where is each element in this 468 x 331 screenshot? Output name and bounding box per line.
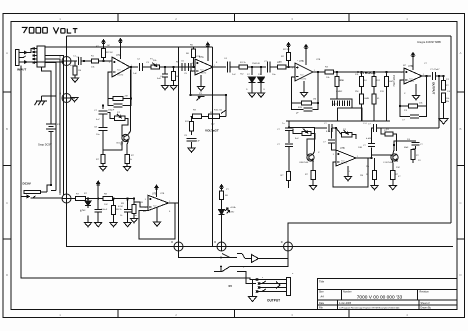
- wire supply node run: [86, 198, 104, 200]
- capacitor C17 fb: [410, 115, 419, 118]
- svg-text:ETTT: ETTT: [333, 104, 339, 106]
- wire U3 feedback loop: [292, 77, 302, 103]
- wire U3 fb up: [317, 72, 319, 103]
- wire STROCK run: [357, 71, 398, 73]
- transistor Q3 BC546: [386, 154, 399, 164]
- wire P4 to Q2: [307, 134, 315, 156]
- power V+ R2: [102, 40, 105, 45]
- svg-text:Drawn By: Drawn By: [421, 307, 432, 310]
- wire RR2 top: [374, 158, 376, 171]
- svg-text:C: C: [6, 201, 8, 205]
- op-amp U6B NJM4558: [333, 147, 358, 166]
- resistor RT1: [335, 77, 339, 87]
- wire bypass right run: [450, 36, 452, 223]
- svg-text:TL0: TL0: [153, 205, 156, 207]
- wire tone drop 1: [336, 72, 338, 77]
- wire CR2 wires: [372, 128, 374, 132]
- wire base bias: [103, 141, 122, 150]
- wire C8 down: [102, 131, 104, 154]
- wire C13 gnd: [127, 212, 129, 222]
- wire jack sleeve down: [21, 66, 256, 280]
- svg-text:MbF: MbF: [404, 147, 409, 149]
- title block row lines: [318, 290, 458, 305]
- svg-text:1M: 1M: [313, 99, 316, 101]
- svg-text:INPUT: INPUT: [17, 68, 26, 72]
- resistor RM1: [287, 172, 291, 181]
- op-amp U2A NJM4558: [192, 56, 215, 75]
- svg-text:TL0: TL0: [117, 69, 120, 71]
- resistor R11 gain: [189, 116, 193, 135]
- svg-text:TL0: TL0: [200, 69, 203, 71]
- power V+ U4: [411, 53, 414, 59]
- wire CM2 down: [288, 147, 290, 170]
- resistor RT4: [384, 77, 388, 121]
- resistor R2 bias up: [101, 49, 105, 61]
- capacitor CM1: [285, 128, 293, 131]
- svg-text:DC9V: DC9V: [23, 182, 32, 186]
- svg-text:3: 3: [333, 154, 334, 156]
- capacitor C12 100uF: [94, 209, 102, 212]
- wire P5 right: [352, 135, 356, 139]
- resistor RM2: [311, 171, 315, 180]
- wire buffer out: [259, 258, 289, 260]
- capacitor C7: [98, 111, 107, 114]
- ground R8: [124, 167, 131, 171]
- resistor RT2: [359, 77, 363, 87]
- ground diode D5: [84, 223, 91, 227]
- svg-text:U?B: U?B: [408, 65, 413, 68]
- resistor R8 emitter: [125, 155, 129, 167]
- svg-text:TL072: TL072: [117, 75, 124, 77]
- svg-text:2: 2: [145, 207, 146, 209]
- svg-text:3: 3: [192, 63, 193, 65]
- wire rail 0V: [67, 203, 454, 247]
- op-amp U4B NJM4558: [401, 65, 424, 84]
- svg-text:C:\Program Files\Design Explor: C:\Program Files\Design Explorer 99 SE\E…: [339, 307, 400, 310]
- wire output tap: [438, 76, 440, 128]
- ground output jack: [248, 297, 256, 302]
- svg-text:3: 3: [109, 62, 110, 64]
- capacitor C13 47uF: [124, 209, 132, 212]
- wire U4 gnd stem: [415, 84, 417, 96]
- trim pot P4: [302, 129, 311, 136]
- svg-text:D: D: [59, 192, 61, 196]
- connector node D3: [59, 192, 71, 203]
- wire U5 gnd stub: [156, 207, 158, 222]
- wire fb bottom: [225, 110, 227, 116]
- wire U1 vplus stem: [119, 44, 121, 60]
- transistor Q1 BC546: [117, 134, 130, 144]
- wire Q2 emitter: [312, 161, 314, 171]
- wire CR2 right: [376, 127, 439, 129]
- wire R2 top: [103, 45, 105, 49]
- ground U3: [300, 93, 307, 97]
- svg-text:TL072: TL072: [341, 163, 348, 165]
- capacitor C11: [267, 61, 270, 72]
- resistor RR2: [372, 171, 376, 180]
- wire C3 left: [108, 99, 114, 106]
- svg-text:A4: A4: [321, 295, 325, 299]
- wire dc jack pin down: [47, 185, 51, 192]
- ground U5: [153, 222, 160, 226]
- wire bus B vertical: [211, 47, 213, 246]
- capacitor C1: [78, 57, 81, 65]
- wire P2 to Q1: [122, 118, 128, 136]
- resistor R21 fb: [409, 104, 427, 108]
- border zone ticks right: [457, 92, 465, 239]
- ground RR3: [389, 186, 396, 190]
- border zone ticks bottom: [118, 310, 349, 318]
- resistor RR4: [411, 150, 415, 160]
- title block outline: [318, 278, 458, 309]
- resistor RT2b: [359, 87, 363, 121]
- wire col1 to dc area: [51, 190, 56, 192]
- power +9V arrow: [97, 181, 100, 187]
- capacitor C10: [227, 61, 230, 72]
- wire footswitch feed run: [40, 46, 212, 48]
- power V+ R14: [287, 43, 290, 48]
- resistor R16 out: [325, 70, 357, 74]
- svg-text:U?B: U?B: [160, 193, 165, 195]
- wire U5 out to rail: [175, 202, 179, 204]
- connector node D4: [171, 240, 183, 251]
- wire U2 fb net: [191, 71, 227, 114]
- wire C1 to R1: [81, 60, 91, 62]
- wire tone bottom rail: [330, 120, 390, 122]
- diode D5 1N4002: [85, 199, 91, 209]
- svg-text:1uF: 1uF: [196, 141, 200, 143]
- border zone ticks left: [3, 92, 11, 239]
- svg-text:BC546: BC546: [302, 162, 309, 164]
- resistor RT3b: [372, 87, 376, 121]
- op-amp U1A NJM4558: [109, 54, 132, 77]
- extra component value labels: [57, 45, 451, 280]
- svg-text:Number: Number: [343, 290, 352, 293]
- ground C13: [124, 223, 131, 227]
- ground RR2: [371, 186, 378, 190]
- wire CR1 up: [371, 132, 373, 143]
- clipping diode DC1: [249, 67, 256, 93]
- wire Q3 collector: [393, 145, 394, 154]
- op-amp U3A NJM4558: [292, 60, 315, 81]
- svg-text:0V: 0V: [229, 284, 233, 288]
- svg-text:D: D: [59, 54, 61, 58]
- resistor R19 bias: [132, 199, 136, 219]
- wire RT1 down: [336, 87, 338, 100]
- power V+ U1: [119, 39, 122, 44]
- wire CM1 down: [288, 131, 290, 143]
- svg-text:1M: 1M: [176, 76, 179, 78]
- wire R6 top: [193, 47, 195, 49]
- output jack J2: [256, 278, 291, 296]
- wire sw to jack: [242, 272, 256, 284]
- wire mid feed: [286, 120, 330, 122]
- wire U5 feedback box: [139, 203, 175, 239]
- svg-text:Snap DC9V: Snap DC9V: [38, 143, 52, 147]
- wire RR1 right: [393, 134, 397, 151]
- svg-text:10C: 10C: [104, 204, 108, 206]
- wire jack gnd stub: [253, 280, 257, 297]
- wire bus column 3: [45, 56, 64, 196]
- svg-text:D: D: [281, 240, 283, 244]
- title block column lines: [337, 290, 419, 310]
- svg-text:Size: Size: [319, 290, 324, 293]
- wire battery min to jack: [50, 136, 52, 185]
- switch SW2b: [220, 266, 242, 272]
- capacitor C16 out: [433, 72, 436, 80]
- wire CR3 down: [415, 146, 417, 149]
- svg-text:TL072: TL072: [408, 81, 415, 83]
- wire RR1 left: [381, 128, 385, 134]
- svg-text:GMB: GMB: [364, 98, 370, 100]
- svg-text:TL072: TL072: [200, 73, 207, 75]
- wire out node: [435, 75, 443, 77]
- ground C4: [161, 86, 168, 90]
- capacitor CR1: [368, 144, 375, 147]
- svg-text:D: D: [6, 273, 8, 277]
- ground R18: [110, 223, 117, 227]
- capacitor C5: [182, 63, 185, 71]
- connector node D2: [59, 91, 71, 102]
- power V+ U5: [155, 185, 158, 191]
- capacitor C6: [188, 63, 191, 71]
- ground U2: [197, 87, 204, 91]
- capacitor C4 gnd: [162, 74, 168, 77]
- ground DC1: [248, 93, 255, 97]
- title 7000 Volt: [22, 27, 78, 33]
- resistor R13 series: [270, 65, 295, 69]
- wire RR2 gnd: [374, 180, 376, 186]
- svg-text:U?A: U?A: [196, 55, 201, 58]
- earth ground input: [35, 101, 48, 105]
- wire node6 drop: [237, 251, 288, 267]
- svg-text:1M: 1M: [107, 45, 110, 47]
- wire CM4 stub: [331, 128, 333, 139]
- svg-text:2M: 2M: [360, 175, 363, 177]
- svg-text:R10 2k2: R10 2k2: [214, 110, 223, 112]
- wire RM1 gnd: [288, 181, 290, 189]
- net label STROCK: [357, 71, 376, 75]
- svg-text:100uF: 100uF: [101, 209, 108, 211]
- trim pot P5: [342, 130, 352, 137]
- connector node D5b: [214, 240, 226, 251]
- svg-text:GM?: GM?: [389, 81, 395, 83]
- wire footswitch bottom stub: [42, 67, 52, 75]
- capacitor CM3: [329, 124, 332, 132]
- svg-text:1N4148: 1N4148: [252, 63, 260, 65]
- svg-text:Revision: Revision: [420, 290, 430, 293]
- wire Q3 base wire: [372, 148, 391, 158]
- svg-text:BC546: BC546: [386, 162, 393, 164]
- wire U2 vplus stem: [207, 49, 209, 62]
- wire bus column 2: [45, 59, 60, 193]
- wire RR4 wires: [413, 148, 416, 151]
- wire tone caps bus: [330, 99, 352, 108]
- wire P4 left: [293, 129, 302, 133]
- wire stage2 run: [159, 66, 195, 68]
- ground R5: [170, 86, 177, 90]
- wire node4 drop: [179, 251, 238, 258]
- wire mid subrail: [289, 126, 315, 128]
- wire R6 bot: [193, 58, 195, 68]
- capacitor C9: [186, 138, 196, 141]
- power V+ LED: [220, 185, 223, 191]
- svg-text:U?B: U?B: [316, 59, 321, 61]
- svg-text:GMB2: GMB2: [336, 91, 343, 93]
- svg-text:47uF: 47uF: [118, 206, 124, 208]
- wire U4 vplus stem: [412, 59, 414, 71]
- wire C12 gnd: [97, 212, 99, 222]
- ground R3: [71, 78, 78, 82]
- wire jack to node: [27, 61, 63, 62]
- clipping diode DC2: [258, 67, 265, 93]
- wire P5 wires: [336, 128, 342, 135]
- svg-text:180pF: 180pF: [108, 110, 115, 112]
- wire Q2 collector: [313, 128, 327, 154]
- svg-text:TL072: TL072: [300, 79, 307, 81]
- wire U1 feedback loop: [108, 72, 113, 99]
- resistor R20 LED: [219, 191, 223, 204]
- ground R7: [99, 167, 106, 171]
- battery BT1 9V: [46, 75, 56, 136]
- wire C4 bot: [164, 77, 166, 86]
- wire U5 vplus: [156, 191, 158, 197]
- resistor R5 gnd: [171, 67, 175, 86]
- wire CR3 wires: [394, 141, 416, 145]
- wire C17 right: [419, 106, 427, 117]
- svg-text:D: D: [459, 273, 461, 277]
- svg-text:4-Jun-2005: 4-Jun-2005: [339, 302, 352, 305]
- svg-text:1M: 1M: [78, 70, 81, 72]
- capacitor CM4: [328, 140, 335, 143]
- power V+ U3: [304, 45, 307, 51]
- svg-text:OUTPUT: OUTPUT: [267, 299, 280, 303]
- wire Q3 emitter: [392, 161, 394, 171]
- wire C3 right: [122, 99, 131, 106]
- svg-text:47MF: 47MF: [80, 210, 86, 212]
- resistor R6 up: [191, 49, 195, 58]
- wire sw2b left stub: [214, 271, 222, 273]
- svg-text:R2 1M: R2 1M: [106, 52, 113, 54]
- wire C10 to R12: [230, 66, 239, 68]
- trim pot P2: [114, 114, 125, 121]
- dc jack J3: [22, 190, 48, 198]
- power V+ U2: [206, 43, 209, 49]
- wire U3 out: [313, 71, 325, 73]
- wire mid feed left: [288, 121, 290, 128]
- LED D6: [219, 203, 230, 221]
- wire dc jack to node: [44, 197, 62, 200]
- wire R14 top: [288, 48, 290, 53]
- buffer stage arrow: [242, 254, 259, 263]
- svg-text:3: 3: [145, 199, 146, 201]
- resistor R17: [71, 196, 88, 200]
- wire CM4 bot: [332, 144, 337, 151]
- svg-text:10k: 10k: [446, 98, 449, 100]
- wire tone drop 3: [373, 72, 375, 77]
- capacitor C8: [98, 128, 107, 131]
- wire junction dots: [50, 60, 445, 200]
- resistor RR3: [391, 171, 395, 180]
- wire input node to C1: [71, 60, 77, 62]
- transistor Q2 BC546: [302, 154, 315, 164]
- wire C9 gnd: [191, 142, 193, 148]
- ground R23: [439, 119, 448, 125]
- svg-text:10B: 10B: [358, 147, 362, 149]
- resistor R10 fb: [202, 114, 227, 118]
- svg-text:Date: Date: [319, 302, 325, 305]
- resistor R7 emitter: [101, 155, 105, 167]
- ground DC2: [257, 93, 264, 97]
- ground C9: [188, 148, 195, 152]
- tone caps row: [332, 101, 349, 107]
- wire U2 out: [213, 66, 226, 68]
- wire cluster feed: [102, 106, 104, 110]
- wire R11 join: [191, 115, 192, 117]
- wire bus column 1: [45, 63, 56, 191]
- wire Q1 emitter: [126, 141, 129, 154]
- svg-text:A: A: [460, 51, 462, 55]
- svg-text:R2 1M: R2 1M: [283, 49, 290, 51]
- svg-text:File: File: [319, 307, 324, 310]
- resistor RT3: [372, 77, 376, 87]
- svg-text:Title: Title: [319, 280, 325, 284]
- resistor R9 fb: [191, 114, 202, 118]
- wire P2 left: [108, 113, 115, 119]
- wire U4 feedback loop: [400, 80, 409, 106]
- resistor RR1: [385, 132, 393, 136]
- tone stack box: [338, 108, 362, 121]
- wire U6 gnd stem: [347, 166, 349, 177]
- svg-text:U?B: U?B: [340, 147, 345, 150]
- capacitor CR2: [374, 124, 377, 132]
- wire U3 vplus stem: [305, 51, 307, 66]
- wire C2 to P1: [142, 66, 151, 68]
- svg-text:B: B: [460, 127, 462, 131]
- svg-text:D: D: [214, 240, 216, 244]
- svg-text:OUTPUT: OUTPUT: [432, 82, 436, 95]
- svg-text:Sheet of: Sheet of: [421, 302, 430, 305]
- capacitor C2: [140, 63, 143, 71]
- svg-text:LED: LED: [230, 212, 235, 214]
- resistor R24 rail: [103, 196, 134, 200]
- svg-text:D: D: [171, 240, 173, 244]
- wire U2 gnd stem: [200, 75, 202, 87]
- wire RC feed: [371, 148, 373, 159]
- svg-text:3: 3: [401, 72, 402, 74]
- wire CM3 on: [332, 128, 336, 150]
- svg-text:A: A: [6, 51, 8, 55]
- svg-text:1: 1: [169, 201, 170, 203]
- wire left junction column: [66, 36, 68, 194]
- wire bias divider: [134, 202, 148, 207]
- trim pot P3 wiper jog: [197, 97, 205, 101]
- resistor R15 fb: [302, 101, 319, 105]
- ground U6: [344, 177, 351, 181]
- input jack J1: [16, 50, 27, 66]
- wire R14 bot: [288, 61, 290, 68]
- svg-text:2M: 2M: [125, 96, 128, 98]
- svg-text:D: D: [59, 91, 61, 95]
- svg-text:1uF: 1uF: [133, 73, 137, 75]
- svg-text:B: B: [6, 127, 8, 131]
- wire U4 fb up: [426, 76, 428, 106]
- wire jack tip to footswitch: [27, 49, 33, 53]
- capacitor CM2: [285, 144, 293, 147]
- footswitch connector SW1: [33, 46, 45, 67]
- wire U6 feedback box: [333, 158, 368, 187]
- wire tone drop 2: [361, 72, 363, 77]
